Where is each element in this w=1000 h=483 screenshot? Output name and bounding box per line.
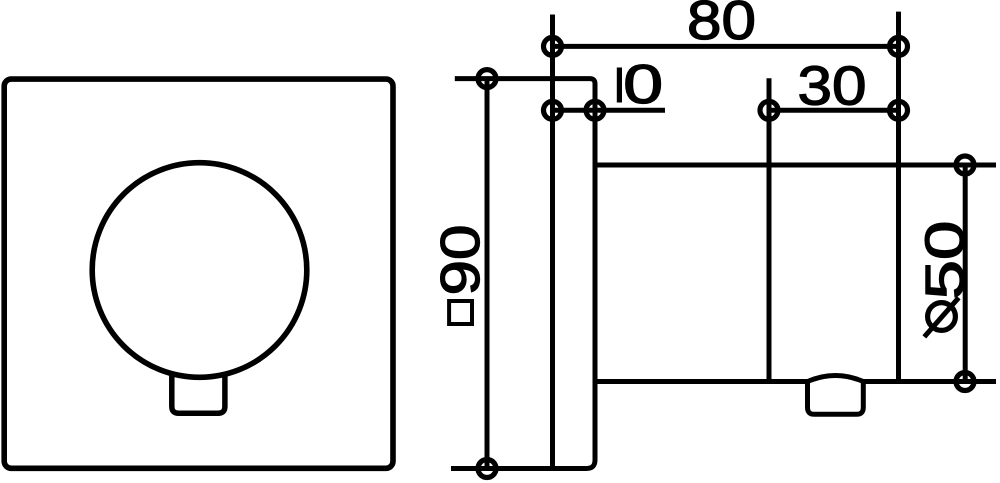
svg-text:0: 0: [623, 53, 663, 115]
svg-text:90: 90: [429, 225, 491, 296]
svg-text:30: 30: [798, 54, 867, 116]
svg-text:50: 50: [913, 220, 975, 299]
svg-text:80: 80: [687, 0, 756, 51]
